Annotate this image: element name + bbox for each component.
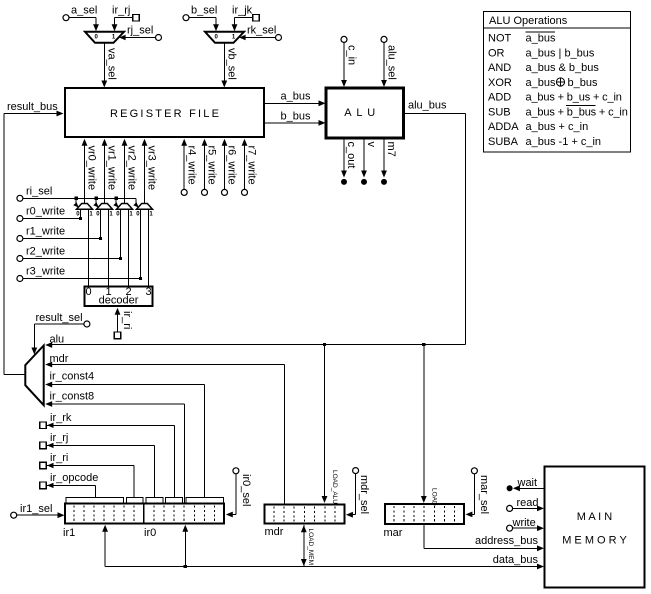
svg-text:a_bus: a_bus xyxy=(281,91,311,103)
svg-text:a_bus + b_us + c_in: a_bus + b_us + c_in xyxy=(526,92,622,104)
svg-text:r1_write: r1_write xyxy=(26,226,65,238)
svg-text:OR: OR xyxy=(488,47,505,59)
svg-text:AND: AND xyxy=(488,62,511,74)
svg-text:M E M O R Y: M E M O R Y xyxy=(562,535,627,547)
svg-text:b_bus: b_bus xyxy=(568,77,598,89)
svg-text:ir_ri: ir_ri xyxy=(50,452,68,464)
svg-text:v: v xyxy=(365,142,377,148)
svg-text:data_bus: data_bus xyxy=(493,554,539,566)
svg-text:alu: alu xyxy=(50,334,65,346)
svg-text:va_sel: va_sel xyxy=(106,48,118,80)
svg-text:a_bus & b_bus: a_bus & b_bus xyxy=(526,62,600,74)
svg-text:r4_write: r4_write xyxy=(185,146,197,185)
svg-text:XOR: XOR xyxy=(488,77,512,89)
svg-text:address_bus: address_bus xyxy=(475,535,538,547)
svg-text:a_bus: a_bus xyxy=(526,77,556,89)
svg-text:ir_rk: ir_rk xyxy=(50,412,72,424)
svg-text:SUBA: SUBA xyxy=(488,136,519,148)
svg-text:ir_const8: ir_const8 xyxy=(50,391,95,403)
svg-text:decoder: decoder xyxy=(99,295,139,307)
svg-text:mdr: mdr xyxy=(50,353,69,365)
svg-text:ir1: ir1 xyxy=(63,527,75,539)
svg-text:r6_write: r6_write xyxy=(226,146,238,185)
svg-text:ir_const4: ir_const4 xyxy=(50,371,95,383)
svg-text:b_sel: b_sel xyxy=(191,5,217,17)
svg-text:SUB: SUB xyxy=(488,106,511,118)
svg-text:ir_ri: ir_ri xyxy=(121,311,133,329)
svg-text:ir_rj: ir_rj xyxy=(50,432,68,444)
svg-text:a_bus + c_in: a_bus + c_in xyxy=(526,121,589,133)
svg-text:b_bus: b_bus xyxy=(281,111,311,123)
svg-text:ADD: ADD xyxy=(488,92,511,104)
svg-text:ri_sel: ri_sel xyxy=(26,185,52,197)
svg-text:r7_write: r7_write xyxy=(246,146,258,185)
svg-text:ADDA: ADDA xyxy=(488,121,519,133)
svg-text:ALU Operations: ALU Operations xyxy=(489,15,568,27)
svg-text:result_sel: result_sel xyxy=(36,312,83,324)
svg-text:a_bus | b_bus: a_bus | b_bus xyxy=(526,47,595,59)
svg-text:vr3_write: vr3_write xyxy=(146,146,158,191)
svg-text:m7: m7 xyxy=(385,142,397,157)
svg-text:NOT: NOT xyxy=(488,33,512,45)
svg-text:ir1_sel: ir1_sel xyxy=(20,503,52,515)
svg-text:rk_sel: rk_sel xyxy=(247,25,276,37)
svg-text:vr2_write: vr2_write xyxy=(126,146,138,191)
svg-text:ir_jk: ir_jk xyxy=(232,5,253,17)
svg-text:LOAD_MEM: LOAD_MEM xyxy=(307,529,314,565)
svg-text:ALU: ALU xyxy=(344,107,380,119)
svg-text:ir0: ir0 xyxy=(144,527,156,539)
svg-text:vr0_write: vr0_write xyxy=(86,146,98,191)
svg-text:a_sel: a_sel xyxy=(71,5,97,17)
svg-text:r2_write: r2_write xyxy=(26,246,65,258)
svg-text:c_out: c_out xyxy=(345,142,357,169)
svg-text:c_in: c_in xyxy=(346,45,358,65)
svg-text:vb_sel: vb_sel xyxy=(226,48,238,80)
svg-text:write: write xyxy=(512,517,536,529)
svg-text:ir_opcode: ir_opcode xyxy=(50,472,98,484)
svg-text:vr1_write: vr1_write xyxy=(106,146,118,191)
svg-text:alu_sel: alu_sel xyxy=(386,45,398,80)
svg-text:M A I N: M A I N xyxy=(577,511,613,523)
svg-text:ir0_sel: ir0_sel xyxy=(240,474,252,506)
svg-text:a_bus + b_bus + c_in: a_bus + b_bus + c_in xyxy=(526,106,628,118)
svg-text:r0_write: r0_write xyxy=(26,206,65,218)
svg-text:r3_write: r3_write xyxy=(26,266,65,278)
svg-text:0: 0 xyxy=(85,286,91,298)
svg-text:rj_sel: rj_sel xyxy=(127,25,153,37)
svg-text:read: read xyxy=(517,497,539,509)
svg-text:3: 3 xyxy=(145,286,151,298)
svg-text:LOAD_ALU: LOAD_ALU xyxy=(331,470,338,504)
svg-text:wait: wait xyxy=(517,477,538,489)
svg-text:mar: mar xyxy=(384,527,403,539)
svg-text:a_bus: a_bus xyxy=(526,33,556,45)
svg-text:result_bus: result_bus xyxy=(7,101,58,113)
svg-text:mar_sel: mar_sel xyxy=(478,475,490,514)
svg-text:ir_rj: ir_rj xyxy=(112,5,130,17)
svg-text:mdr_sel: mdr_sel xyxy=(358,475,370,514)
svg-text:r5_write: r5_write xyxy=(206,146,218,185)
svg-text:LOAD: LOAD xyxy=(431,488,438,506)
svg-text:a_bus -1 + c_in: a_bus -1 + c_in xyxy=(526,136,602,148)
svg-text:alu_bus: alu_bus xyxy=(408,100,447,112)
svg-text:REGISTER FILE: REGISTER FILE xyxy=(110,108,221,120)
svg-text:mdr: mdr xyxy=(265,526,284,538)
